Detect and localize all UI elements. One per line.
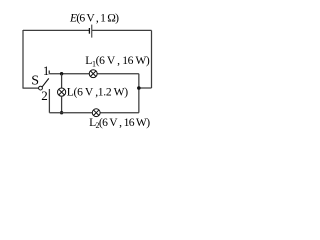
wire left vertical (22, 30, 24, 88)
svg-text:1: 1 (43, 63, 50, 78)
contact 2 tick and riser to bottom wire (48, 89, 50, 113)
wire right inner vertical (138, 74, 140, 113)
lamp L2 (92, 109, 100, 117)
wire lamp-L vertical upper (61, 74, 63, 88)
wire to switch pivot (23, 87, 39, 89)
svg-text:L1(6 V , 16 W): L1(6 V , 16 W) (85, 54, 150, 69)
wire lamp-L vertical lower (61, 96, 63, 113)
bottom wire (49, 112, 138, 114)
svg-text:L2(6 V , 16 W): L2(6 V , 16 W) (89, 116, 150, 130)
lamp L (58, 88, 66, 96)
lamp L1 (89, 70, 97, 78)
battery E long plate (91, 25, 93, 38)
svg-text:L(6 V ,1.2 W): L(6 V ,1.2 W) (67, 86, 128, 99)
svg-text:E(6 V , 1 Ω): E(6 V , 1 Ω) (69, 11, 119, 24)
svg-text:S: S (31, 74, 39, 89)
svg-text:2: 2 (41, 88, 48, 103)
wire top-left (23, 29, 89, 31)
wire right vertical (151, 30, 153, 88)
node J3 junction dot (60, 111, 63, 114)
switch pivot circle (39, 86, 43, 90)
node J1 junction dot (60, 72, 63, 75)
battery E short plate (88, 28, 90, 34)
wire top-right (92, 29, 152, 31)
wire right stub to J2 (139, 87, 152, 89)
L1 branch wire (49, 73, 139, 75)
switch arm (42, 78, 49, 86)
node J2 junction dot (137, 86, 141, 90)
contact 1 tick (48, 71, 50, 74)
